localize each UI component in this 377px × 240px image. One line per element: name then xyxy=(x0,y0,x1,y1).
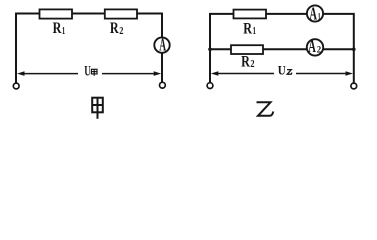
svg-text:2: 2 xyxy=(250,59,254,70)
svg-text:1: 1 xyxy=(253,26,256,37)
svg-text:A: A xyxy=(309,3,317,23)
svg-text:1: 1 xyxy=(62,26,65,37)
svg-text:U: U xyxy=(84,64,91,80)
svg-text:1: 1 xyxy=(318,13,321,23)
svg-text:2: 2 xyxy=(119,26,123,37)
svg-text:R: R xyxy=(110,20,119,37)
svg-text:U: U xyxy=(278,63,287,78)
svg-text:A: A xyxy=(159,35,166,55)
svg-text:R: R xyxy=(53,20,62,37)
svg-text:2: 2 xyxy=(317,45,322,55)
svg-text:R: R xyxy=(241,53,250,70)
svg-text:A: A xyxy=(308,36,316,56)
svg-text:R: R xyxy=(243,21,252,38)
